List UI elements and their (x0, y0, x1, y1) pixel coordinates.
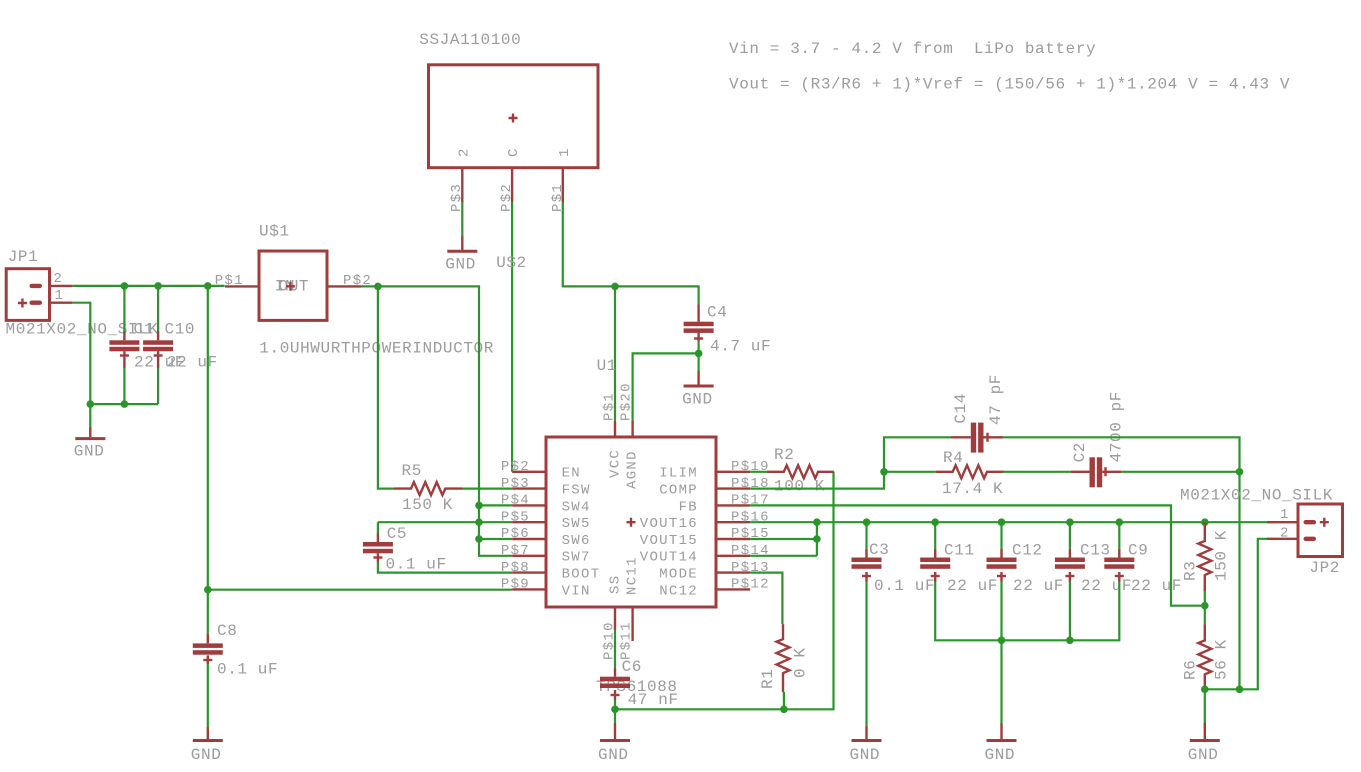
capacitor C10 (157, 331, 159, 368)
svg-text:GND: GND (850, 746, 881, 764)
svg-text:R1: R1 (759, 669, 777, 689)
op-amp U1 TPS61088 box (546, 437, 716, 607)
U1 pin VOUT14 stub P$14 (716, 555, 750, 557)
svg-text:SW4: SW4 (562, 499, 591, 515)
svg-text:C11: C11 (944, 542, 975, 560)
svg-text:0.1 uF: 0.1 uF (217, 661, 278, 679)
wire C3 to ground (865, 582, 867, 727)
junction FB node (1201, 602, 1209, 610)
svg-text:0.1 uF: 0.1 uF (874, 577, 935, 595)
svg-text:P$9: P$9 (501, 577, 530, 593)
svg-text:2: 2 (456, 147, 472, 157)
svg-text:SW5: SW5 (562, 516, 591, 532)
junction C8 tap (204, 586, 212, 594)
junction inductor out (374, 283, 382, 291)
junction C4 bottom (695, 350, 703, 358)
svg-text:22 uF: 22 uF (1131, 577, 1182, 595)
svg-text:2: 2 (1280, 526, 1290, 542)
capacitor C4 (697, 305, 699, 342)
JP1 plus mark (18, 299, 27, 308)
junction C1 top (121, 282, 129, 290)
svg-text:17.4 K: 17.4 K (942, 480, 1003, 498)
U1 pin COMP stub P$18 (716, 487, 750, 489)
battery holder U$2 box SSJA110100 (429, 65, 599, 168)
wire battery P$3 to ground (461, 202, 463, 235)
svg-text:P$2: P$2 (501, 459, 530, 475)
svg-text:C2: C2 (1071, 442, 1089, 462)
wire COMP net to R4 C14 (750, 437, 951, 488)
svg-text:56 K: 56 K (1213, 639, 1231, 680)
svg-text:U1: U1 (597, 357, 617, 375)
capacitor C6 (614, 630, 616, 669)
battery pin P$1 (562, 168, 564, 202)
svg-text:VOUT15: VOUT15 (640, 533, 698, 549)
resistor R1 (750, 573, 782, 625)
JP1 pin 2 stub (50, 285, 73, 287)
inductor plus mark (286, 282, 295, 291)
JP2 pad pin1 (1304, 520, 1317, 524)
U1 pin EN stub P$2 (512, 471, 546, 473)
svg-text:GND: GND (74, 443, 105, 461)
svg-text:SS: SS (608, 575, 624, 594)
svg-text:GND: GND (598, 746, 629, 764)
svg-text:C9: C9 (1128, 542, 1148, 560)
svg-text:VOUT16: VOUT16 (640, 516, 698, 532)
net U$2 wire battery P$2 to EN (511, 202, 513, 472)
svg-text:P$1: P$1 (602, 392, 618, 421)
U1 pin SS stub P$10 (614, 607, 616, 630)
svg-text:SW6: SW6 (562, 533, 591, 549)
svg-text:P$11: P$11 (618, 621, 634, 660)
inductor U$1 box (259, 251, 327, 320)
wire comp network to ground rail (1003, 437, 1240, 689)
resistor R5 (394, 482, 462, 495)
svg-text:MODE: MODE (659, 567, 698, 583)
svg-text:SW7: SW7 (562, 550, 591, 566)
battery pin P$3 (461, 168, 463, 202)
svg-text:C4: C4 (707, 304, 727, 322)
ground under C6 (614, 723, 616, 740)
svg-text:47 nF: 47 nF (628, 691, 679, 709)
svg-text:C8: C8 (217, 622, 237, 640)
ground under C12 (1000, 723, 1002, 740)
JP2 pin 2 stub (1267, 538, 1298, 540)
resistor R6 (1198, 624, 1211, 687)
svg-text:C10: C10 (165, 321, 196, 339)
svg-text:C5: C5 (387, 525, 407, 543)
svg-text:C6: C6 (622, 658, 642, 676)
battery pin P$2 (511, 168, 513, 202)
capacitor C8 (207, 590, 209, 634)
svg-text:AGND: AGND (624, 450, 640, 489)
junction SW5 (475, 518, 483, 526)
JP1 pad pin1 (30, 301, 43, 305)
U1 pin ILIM stub P$19 (716, 471, 750, 473)
svg-text:22 uF: 22 uF (947, 577, 998, 595)
junction C13 bottom (1066, 637, 1074, 645)
svg-text:Vin = 3.7 - 4.2 V from LiPo b: Vin = 3.7 - 4.2 V from LiPo battery (729, 40, 1096, 58)
JP2 pad pin2 (1304, 537, 1317, 541)
wire BOOT net C5 bottom to BOOT pin (378, 562, 512, 573)
svg-text:150 K: 150 K (402, 496, 453, 514)
junction C12 bottom (998, 637, 1006, 645)
JP1 pin 1 stub (50, 302, 73, 304)
svg-text:EN: EN (562, 466, 581, 482)
svg-text:R3: R3 (1182, 561, 1200, 581)
JP2 pin 1 stub (1267, 521, 1298, 523)
svg-text:FSW: FSW (562, 483, 591, 499)
svg-text:P$8: P$8 (501, 560, 530, 576)
svg-text:P$7: P$7 (501, 543, 530, 559)
svg-text:0.1 uF: 0.1 uF (386, 556, 447, 574)
junction VCC node (611, 283, 619, 291)
wire VOUT rail (750, 522, 1267, 556)
svg-text:P$12: P$12 (731, 577, 770, 593)
svg-text:GND: GND (1188, 746, 1219, 764)
junction C6 bottom (611, 706, 619, 714)
svg-text:GND: GND (445, 256, 476, 274)
svg-text:GND: GND (682, 391, 713, 409)
U1 pin SW5 stub P$5 (512, 521, 546, 523)
resistor R2 (750, 471, 767, 473)
svg-text:1: 1 (1280, 507, 1290, 523)
junction GND corner (87, 400, 95, 408)
svg-text:C12: C12 (1012, 542, 1043, 560)
JP2 plus mark (1320, 518, 1329, 527)
svg-text:VCC: VCC (608, 449, 624, 478)
inductor pin P$2 stub (327, 285, 361, 287)
U1 pin VOUT15 stub P$15 (716, 538, 750, 540)
resistor R4 (936, 465, 1004, 478)
svg-text:VOUT14: VOUT14 (640, 550, 698, 566)
junction VIN drop (204, 282, 212, 290)
svg-text:SSJA110100: SSJA110100 (419, 31, 521, 49)
ground under C3 (865, 726, 867, 740)
capacitor C2 (1090, 457, 1095, 487)
junction C14 C2 (1236, 468, 1244, 476)
svg-text:R2: R2 (774, 446, 794, 464)
capacitor C3 (865, 522, 867, 549)
svg-text:P$4: P$4 (501, 493, 530, 509)
junction COMP R4 (880, 468, 888, 476)
svg-text:GND: GND (985, 746, 1016, 764)
svg-text:JP2: JP2 (1309, 559, 1340, 577)
capacitor C1 (123, 331, 125, 368)
svg-text:GND: GND (191, 746, 222, 764)
capacitor C5 (377, 522, 379, 533)
svg-text:2: 2 (54, 271, 64, 287)
svg-text:VIN: VIN (562, 583, 591, 599)
svg-text:JP1: JP1 (8, 248, 39, 266)
svg-text:P$20: P$20 (618, 382, 634, 421)
svg-text:ILIM: ILIM (659, 466, 698, 482)
svg-text:Vout = (R3/R6 + 1)*Vref = (150: Vout = (R3/R6 + 1)*Vref = (150/56 + 1)*1… (729, 76, 1290, 94)
junction SW4 (475, 502, 483, 510)
svg-text:P$3: P$3 (501, 476, 530, 492)
resistor R3 (1201, 518, 1209, 526)
ground under JP1 (89, 427, 91, 437)
svg-text:C14: C14 (952, 393, 970, 424)
svg-text:C1: C1 (134, 321, 154, 339)
wire FB net (750, 505, 1205, 624)
svg-text:R4: R4 (943, 449, 963, 467)
inductor pin P$1 stub (225, 285, 259, 287)
wire output caps bottom bus (935, 582, 1119, 724)
junction R6 bottom (1201, 686, 1209, 694)
U1 pin SW6 stub P$6 (512, 538, 546, 540)
wire AGND net C4 bottom (633, 341, 699, 421)
U1 pin VIN stub P$9 (512, 588, 546, 590)
wire battery P$1 to VCC and C4 (563, 202, 699, 421)
svg-text:1.0UHWURTHPOWERINDUCTOR: 1.0UHWURTHPOWERINDUCTOR (259, 340, 494, 358)
U1 pin FSW stub P$3 (512, 487, 546, 489)
U1 pin MODE stub P$13 (716, 571, 750, 573)
svg-text:P$1: P$1 (215, 273, 244, 289)
battery plus mark (509, 114, 518, 123)
svg-text:4700 pF: 4700 pF (1108, 391, 1126, 462)
svg-text:R6: R6 (1182, 660, 1200, 680)
U1 pin FB stub P$17 (716, 504, 750, 506)
svg-text:P$5: P$5 (501, 509, 530, 525)
svg-text:4.7 uF: 4.7 uF (710, 338, 771, 356)
svg-text:U$1: U$1 (259, 223, 290, 241)
svg-text:FB: FB (679, 499, 698, 515)
svg-text:C: C (506, 147, 522, 157)
U1 pin VOUT16 stub P$16 (716, 521, 750, 523)
junction VOUT rail left (813, 518, 821, 526)
wire GND net JP1 pin1 and C1 C10 bottoms (73, 303, 158, 427)
wire VIN net JP1 pin2 to U$1 P$1 with branches (73, 286, 513, 590)
svg-text:C13: C13 (1080, 542, 1111, 560)
svg-text:R5: R5 (402, 462, 422, 480)
junction R1 bottom (780, 706, 788, 714)
svg-text:1: 1 (557, 147, 573, 157)
U1 pin BOOT stub P$8 (512, 571, 546, 573)
svg-text:22 uF: 22 uF (1013, 577, 1064, 595)
svg-text:C3: C3 (869, 541, 889, 559)
svg-text:P$6: P$6 (501, 526, 530, 542)
wire R6 bottom ground net (1205, 539, 1267, 723)
capacitor C13 (1069, 522, 1071, 549)
capacitor C11 (934, 522, 936, 549)
svg-text:COMP: COMP (659, 483, 698, 499)
capacitor C12 (1000, 522, 1002, 549)
junction C1 bottom (121, 400, 129, 408)
ground under battery P$3 (461, 235, 463, 250)
wire C8 to ground (207, 664, 209, 727)
svg-text:BOOT: BOOT (562, 567, 601, 583)
svg-text:22 uF: 22 uF (167, 354, 218, 372)
U1 plus mark (627, 518, 636, 527)
svg-text:M021X02_NO_SILK: M021X02_NO_SILK (1180, 487, 1333, 505)
svg-text:U$2: U$2 (496, 254, 527, 272)
junction comp net ground (1236, 686, 1244, 694)
svg-text:NC12: NC12 (659, 583, 698, 599)
wire R4 to C2 (1003, 471, 1071, 473)
svg-text:150 K: 150 K (1213, 530, 1231, 581)
svg-text:1: 1 (55, 288, 65, 304)
connector JP1 box (6, 269, 49, 321)
wire SW net from inductor P$2 to IC SW pins (361, 286, 512, 555)
capacitor C14 (971, 423, 976, 453)
U1 pin SW7 stub P$7 (512, 555, 546, 557)
junction C10 top (154, 282, 162, 290)
wire SS ground net (615, 472, 834, 723)
U1 pin VCC stub P$1 (614, 421, 616, 437)
ground under C4 (697, 371, 699, 385)
svg-text:NC11: NC11 (624, 556, 640, 595)
svg-text:22 uF: 22 uF (1081, 577, 1132, 595)
junction SW6 (475, 535, 483, 543)
JP1 pad pin2 (30, 284, 43, 288)
ground under R6 (1204, 723, 1206, 740)
U1 pin NC11 stub P$11 (631, 607, 633, 641)
U1 pin NC12 stub P$12 (716, 588, 750, 590)
ground under C8 (207, 727, 209, 740)
junction VOUT15 (813, 535, 821, 543)
capacitor C9 (1118, 522, 1120, 549)
connector JP2 box (1298, 504, 1343, 557)
svg-text:0 K: 0 K (792, 647, 810, 678)
svg-text:100 K: 100 K (774, 478, 825, 496)
svg-text:47 pF: 47 pF (987, 374, 1005, 425)
U1 pin AGND stub P$20 (631, 421, 633, 437)
U1 pin SW4 stub P$4 (512, 504, 546, 506)
